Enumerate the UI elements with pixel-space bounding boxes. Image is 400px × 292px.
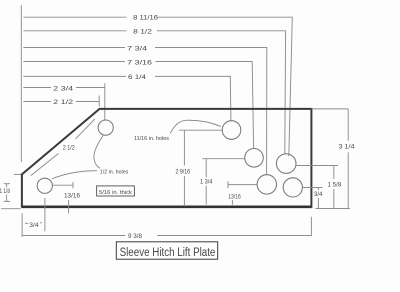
dimension 7 3/16 [23,61,253,149]
title box Sleeve Hitch Lift Plate [116,242,217,259]
dimension 2 1/2 slant [31,119,95,176]
svg-text:8 1/2: 8 1/2 [133,29,153,35]
svg-text:8 11/16: 8 11/16 [133,16,159,22]
hole E 11/16 in [283,178,302,197]
svg-text:1 1/8: 1 1/8 [0,189,11,195]
leader to hole H1 [94,135,104,169]
svg-text:3 1/4: 3 1/4 [339,144,356,150]
dimension 3 1/4 [311,109,355,209]
label 1/2 in. holes [100,170,129,176]
dimension 8 11/16 [23,16,292,157]
plate outline [22,109,312,207]
dimension 13/16 right [228,181,257,205]
svg-text:9 3/8: 9 3/8 [128,234,143,240]
svg-text:7 3/16: 7 3/16 [127,61,153,67]
dimension 2 1/2 horizontal [23,96,99,107]
svg-text:3/4: 3/4 [29,223,39,229]
dimension 7 3/4 [23,47,266,175]
dimension 1 3/4 [200,159,245,205]
svg-text:1 3/4: 1 3/4 [200,179,213,185]
dimension 13/16 left [52,182,80,213]
svg-text:1/2 in. holes: 1/2 in. holes [100,170,129,176]
leader to hole A [170,120,221,133]
leader to hole H2 [52,171,97,179]
svg-text:2 3/4: 2 3/4 [53,86,74,92]
svg-text:2 9/16: 2 9/16 [176,169,191,175]
dimension 6 1/4 [23,75,231,121]
hole H1 top-left 1/2 in [98,120,113,135]
hole H2 bottom-left 1/2 in [37,178,52,193]
dimension 2 3/4 [23,83,104,120]
svg-text:6 1/4: 6 1/4 [128,75,147,81]
dimension 3/4 bottom-left [22,198,45,237]
hole D 11/16 in [257,175,276,194]
svg-text:11/16 in. holes: 11/16 in. holes [134,136,169,142]
svg-text:13/16: 13/16 [64,193,81,199]
svg-text:2 1/2: 2 1/2 [63,145,76,151]
dimension 3/4 right [302,188,323,209]
dimension 8 1/2 [23,29,285,153]
svg-text:Sleeve Hitch Lift Plate: Sleeve Hitch Lift Plate [120,247,216,259]
svg-text:7 3/4: 7 3/4 [127,47,148,53]
dimension 2 9/16 [176,130,222,206]
svg-text:5/16 in. thick: 5/16 in. thick [99,190,132,196]
dimension 1 1/8 [0,174,21,208]
box 5/16 in. thick [97,186,135,196]
hole A 11/16 in [222,121,241,140]
svg-text:13/16: 13/16 [228,195,241,201]
hole B 11/16 in [245,149,264,168]
svg-text:1 5/8: 1 5/8 [328,183,342,189]
left extension line [20,5,22,162]
svg-text:3/4: 3/4 [314,192,323,198]
svg-text:2 1/2: 2 1/2 [53,100,74,106]
dimension 1 5/8 [296,166,342,209]
dimension 9 3/8 [22,217,311,240]
label 11/16 in. holes [134,136,169,142]
hole C 11/16 in [276,154,296,174]
